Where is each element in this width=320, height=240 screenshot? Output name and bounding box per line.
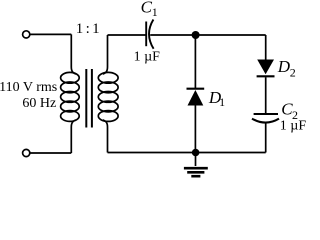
- svg-text:110 V rms: 110 V rms: [0, 80, 57, 95]
- svg-text:60 Hz: 60 Hz: [22, 96, 56, 111]
- svg-text:1 µF: 1 µF: [134, 49, 161, 64]
- svg-text:D: D: [277, 57, 291, 76]
- svg-text:1: 1: [152, 5, 158, 19]
- svg-text:1:1: 1:1: [76, 21, 102, 37]
- svg-text:2: 2: [292, 108, 298, 122]
- svg-text:2: 2: [290, 65, 296, 79]
- svg-text:1: 1: [219, 95, 225, 109]
